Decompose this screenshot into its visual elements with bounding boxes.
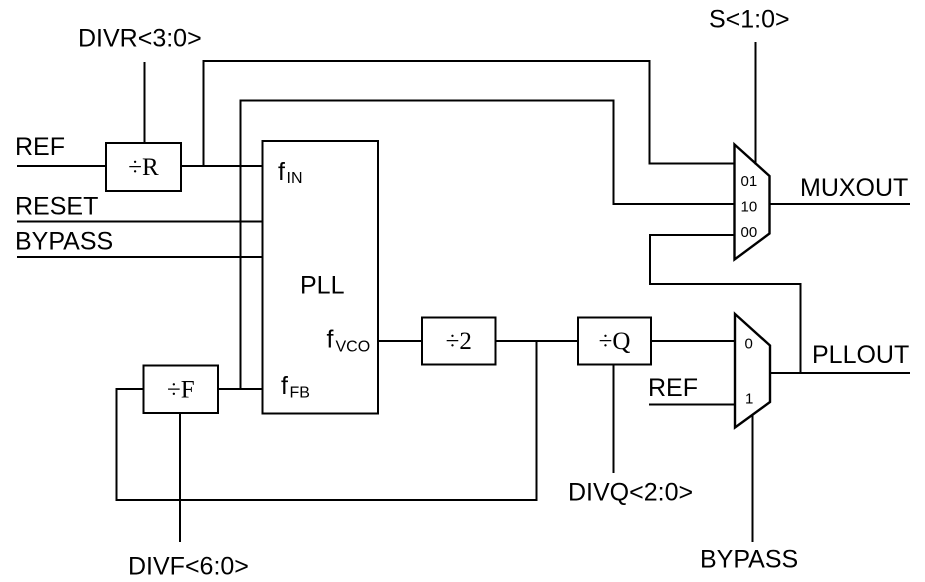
svg-text:PLL: PLL: [300, 272, 345, 300]
wire ÷Q output to PLLOUT mux input 0: [651, 340, 736, 342]
wire PLLOUT node to MUXOUT mux input 00: [650, 235, 801, 373]
svg-text:÷2: ÷2: [446, 328, 472, 355]
wire DIVF control: [179, 413, 181, 542]
svg-text:DIVQ<2:0>: DIVQ<2:0>: [568, 479, 693, 507]
svg-text:f: f: [278, 158, 285, 186]
svg-text:REF: REF: [648, 374, 698, 402]
wire BYPASS control to PLLOUT mux: [752, 415, 754, 542]
svg-text:1: 1: [745, 391, 753, 408]
svg-text:REF: REF: [15, 133, 65, 161]
wire REF input: [17, 165, 106, 167]
wire ÷F output to PLL fFB: [218, 388, 263, 390]
svg-text:IN: IN: [287, 170, 303, 187]
wire fIN node to MUXOUT mux input 01: [204, 61, 736, 166]
divider box ÷Q: [578, 318, 651, 365]
svg-text:S<1:0>: S<1:0>: [709, 6, 790, 34]
resistor divider box ÷R: [106, 143, 181, 191]
svg-text:01: 01: [741, 173, 758, 190]
svg-text:÷Q: ÷Q: [599, 328, 631, 355]
svg-text:0: 0: [745, 336, 753, 353]
svg-text:00: 00: [741, 224, 758, 241]
svg-text:BYPASS: BYPASS: [700, 546, 798, 574]
svg-text:PLLOUT: PLLOUT: [812, 341, 909, 369]
wire PLLOUT output: [770, 372, 910, 374]
svg-text:RESET: RESET: [15, 193, 98, 221]
wire RESET: [17, 221, 263, 223]
svg-text:MUXOUT: MUXOUT: [800, 174, 908, 202]
wire S control: [755, 42, 757, 165]
svg-text:÷F: ÷F: [167, 376, 195, 403]
wire DIVR control: [144, 62, 146, 143]
mux MUXOUT: [735, 145, 770, 260]
wire fVCO to ÷2: [378, 340, 422, 342]
divider box ÷2: [422, 318, 496, 365]
wire BYPASS: [17, 256, 263, 258]
wire ÷2 output to ÷Q: [496, 340, 579, 342]
wire REF to PLLOUT mux input 1: [649, 404, 735, 406]
wire MUXOUT output: [770, 203, 911, 205]
wire feedback to ÷F: [117, 341, 537, 500]
svg-text:VCO: VCO: [336, 339, 371, 356]
wire ÷R output to PLL fIN: [181, 165, 263, 167]
mux PLLOUT: [735, 314, 770, 428]
svg-text:10: 10: [741, 199, 758, 216]
wire fFB node to MUXOUT mux input 10: [241, 101, 736, 390]
svg-text:DIVR<3:0>: DIVR<3:0>: [78, 25, 202, 53]
wire DIVQ control: [613, 365, 615, 474]
svg-text:FB: FB: [290, 385, 310, 402]
svg-text:f: f: [327, 326, 334, 354]
PLL block box: [263, 141, 379, 414]
svg-text:DIVF<6:0>: DIVF<6:0>: [128, 553, 249, 581]
svg-text:BYPASS: BYPASS: [15, 228, 113, 256]
svg-text:f: f: [281, 372, 288, 400]
divider box ÷F: [144, 366, 219, 414]
svg-text:÷R: ÷R: [128, 154, 159, 181]
